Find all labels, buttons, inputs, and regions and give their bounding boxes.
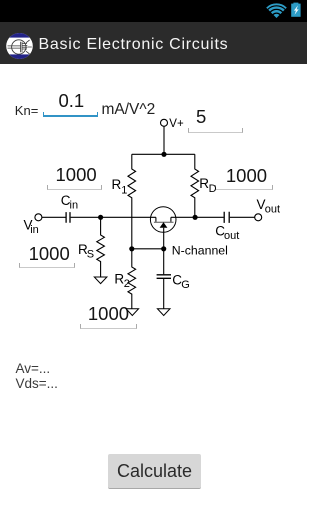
EditText underline Kn (focused blue) xyxy=(43,112,98,117)
label Cout xyxy=(215,223,239,242)
wifi icon xyxy=(266,2,287,18)
ground CG xyxy=(157,309,170,316)
svg-text:out: out xyxy=(265,204,280,216)
Calculate button xyxy=(108,454,201,489)
label R1 xyxy=(112,177,128,197)
EditText value 1000 (RS) xyxy=(29,247,70,261)
svg-text:G: G xyxy=(181,279,190,291)
EditText value 1000 (R1) xyxy=(56,168,97,182)
label V+ xyxy=(169,118,184,130)
label Vin xyxy=(24,218,39,237)
node V+ terminal xyxy=(161,119,168,126)
junction gate/RS xyxy=(98,215,103,220)
wire drain to Cout xyxy=(171,216,224,218)
app icon xyxy=(6,33,33,59)
EditText underline V+ xyxy=(188,128,243,133)
ground RS xyxy=(94,277,107,284)
svg-text:S: S xyxy=(87,249,94,261)
resistor RS xyxy=(97,217,105,277)
EditText underline R2 xyxy=(80,324,137,329)
ground R2 xyxy=(126,309,139,316)
wire V+ to rail xyxy=(163,126,165,154)
wire top rail xyxy=(132,153,195,155)
junction rail/V+ xyxy=(161,152,166,157)
resistor R1 xyxy=(128,154,136,249)
resistor RD xyxy=(191,154,199,217)
label mA/V^2 xyxy=(102,102,156,118)
EditText underline RS xyxy=(19,263,75,268)
resistor R2 xyxy=(128,249,136,309)
result Av= xyxy=(16,362,51,376)
EditText underline RD xyxy=(215,185,273,190)
junction source/R2 xyxy=(129,246,134,251)
junction source/CG xyxy=(161,246,166,251)
capacitor Cin xyxy=(66,212,70,223)
junction drain/RD xyxy=(193,215,198,220)
result Vds= xyxy=(16,377,58,391)
action bar xyxy=(0,22,307,64)
battery icon (charging) xyxy=(290,2,302,17)
EditText value 1000 (RD) xyxy=(226,169,267,183)
EditText value 5 (V+) xyxy=(196,110,206,124)
wire Cout to Vout xyxy=(230,216,255,218)
svg-text:N-channel: N-channel xyxy=(172,244,228,258)
label Vout xyxy=(257,197,281,216)
svg-text:D: D xyxy=(209,183,217,195)
svg-text:R: R xyxy=(112,177,122,192)
svg-text:V+: V+ xyxy=(169,118,184,130)
label Kn= xyxy=(15,104,39,117)
action bar title xyxy=(39,36,229,54)
label R2 xyxy=(114,271,129,290)
label Cin xyxy=(61,193,78,212)
label RD xyxy=(199,176,216,195)
svg-text:in: in xyxy=(30,224,39,236)
capacitor CG xyxy=(157,249,171,309)
wire source node xyxy=(132,248,164,250)
wire Vin to Cin xyxy=(42,216,66,218)
label CG xyxy=(172,272,190,291)
wire Cin to gate xyxy=(71,216,156,218)
svg-text:in: in xyxy=(70,200,79,212)
transistor Q1 N-channel xyxy=(150,207,176,249)
svg-text:out: out xyxy=(224,230,239,242)
svg-text:1: 1 xyxy=(121,185,127,197)
label N-channel xyxy=(172,244,228,258)
node Vin terminal xyxy=(35,214,42,221)
EditText value 0.1 (Kn) xyxy=(59,94,85,108)
EditText underline R1 xyxy=(47,185,102,190)
capacitor Cout xyxy=(224,212,229,223)
node Vout terminal xyxy=(255,214,262,221)
EditText value 1000 (R2) xyxy=(88,307,129,321)
status bar xyxy=(0,0,307,22)
svg-text:2: 2 xyxy=(124,278,130,290)
label RS xyxy=(78,242,94,261)
